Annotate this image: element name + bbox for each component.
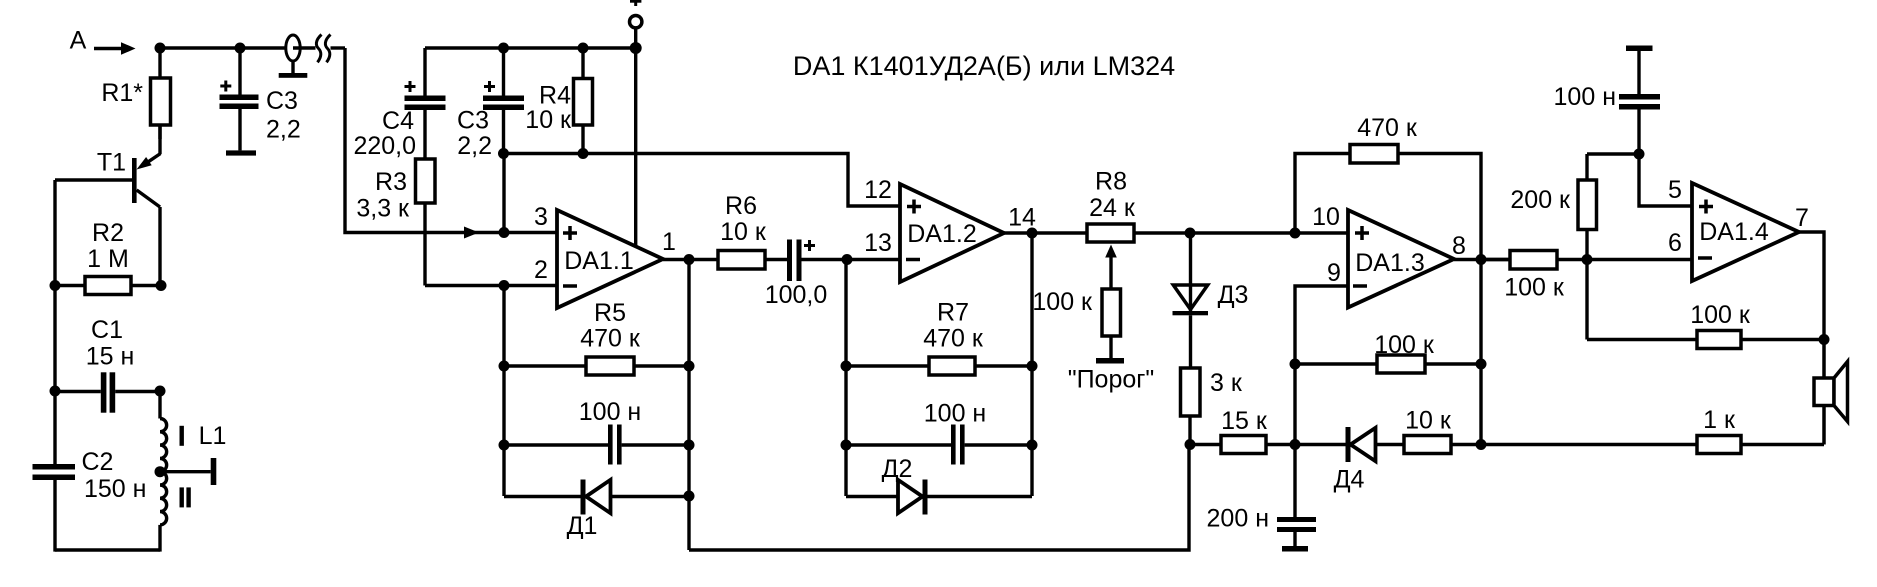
resistor 100k DA1.3 feedback	[1295, 355, 1481, 373]
resistor R2	[55, 277, 161, 295]
op-amp U3 DA1.3	[1348, 210, 1454, 308]
svg-text:100 н: 100 н	[579, 398, 641, 426]
resistor 100k threshold	[1096, 289, 1124, 364]
junction C1 right	[155, 386, 166, 397]
wire DA1.4 output	[1799, 232, 1824, 340]
wire R8 to DA1.3 row	[1134, 231, 1348, 234]
svg-text:1 к: 1 к	[1703, 406, 1736, 434]
junction D1 right	[684, 491, 695, 502]
svg-text:24 к: 24 к	[1089, 194, 1136, 222]
capacitor C1	[55, 372, 160, 412]
svg-text:R5: R5	[594, 299, 626, 327]
svg-text:C1: C1	[91, 316, 123, 344]
speaker BA1	[1814, 340, 1848, 445]
capacitor 200n	[1277, 517, 1316, 552]
potentiometer R8	[1087, 224, 1134, 289]
wire left vertical lower	[53, 480, 56, 552]
junction 15k left	[1185, 439, 1196, 450]
svg-text:8: 8	[1452, 232, 1466, 260]
svg-text:R6: R6	[725, 192, 757, 220]
junction R7 left	[841, 361, 852, 372]
svg-text:14: 14	[1008, 204, 1036, 232]
junction D3 top	[1185, 228, 1196, 239]
resistor 100k DA1.4 feedback	[1587, 331, 1824, 349]
svg-text:DA1.3: DA1.3	[1355, 249, 1424, 277]
svg-text:15 к: 15 к	[1221, 407, 1268, 435]
svg-text:100,0: 100,0	[765, 281, 828, 309]
capacitor C3 electrolytic at input	[220, 48, 259, 150]
svg-text:Д2: Д2	[882, 455, 913, 483]
junction R2 left	[50, 280, 61, 291]
svg-text:DA1.2: DA1.2	[907, 220, 976, 248]
svg-text:2,2: 2,2	[457, 132, 492, 160]
junction 10k right	[1476, 439, 1487, 450]
svg-text:DA1 К1401УД2А(Б) или LM324: DA1 К1401УД2А(Б) или LM324	[793, 51, 1175, 81]
capacitor 100n DA1.1	[504, 425, 689, 465]
junction C3 top	[235, 43, 246, 54]
junction pin14 node	[1027, 228, 1038, 239]
svg-text:12: 12	[864, 176, 892, 204]
svg-text:470 к: 470 к	[1357, 114, 1418, 142]
junction 100k3 right	[1476, 359, 1487, 370]
junction rail C3b	[498, 43, 509, 54]
svg-text:220,0: 220,0	[353, 132, 416, 160]
L1 center tap	[155, 458, 217, 485]
junction R5 left	[499, 361, 510, 372]
svg-text:100 к: 100 к	[1690, 301, 1751, 329]
svg-text:C3: C3	[457, 107, 489, 135]
svg-text:T1: T1	[97, 149, 126, 177]
svg-text:3: 3	[534, 203, 548, 231]
wire to pin 5	[1639, 154, 1692, 206]
resistor 1k	[1481, 436, 1824, 454]
junction rail R4	[578, 43, 589, 54]
label L1 winding II	[180, 487, 191, 507]
svg-text:15 н: 15 н	[86, 343, 135, 371]
supply terminal plus	[630, 0, 642, 48]
svg-text:R7: R7	[937, 299, 969, 327]
svg-text:100 н: 100 н	[924, 400, 986, 428]
op-amp U4 DA1.4	[1692, 183, 1799, 281]
svg-text:2,2: 2,2	[266, 116, 301, 144]
svg-text:100 к: 100 к	[1504, 274, 1565, 302]
svg-text:2: 2	[534, 256, 548, 284]
svg-text:9: 9	[1327, 259, 1341, 287]
svg-text:13: 13	[864, 229, 892, 257]
junction R7 right	[1027, 361, 1038, 372]
resistor 10k	[1404, 436, 1481, 454]
input arrow	[94, 42, 136, 55]
wire to pin 13	[847, 258, 900, 261]
svg-text:100 н: 100 н	[1554, 83, 1616, 111]
junction 100n bottom node	[1634, 149, 1645, 160]
svg-text:3 к: 3 к	[1210, 369, 1243, 397]
svg-text:200 к: 200 к	[1510, 186, 1571, 214]
diode D3	[1173, 233, 1209, 368]
svg-text:100 к: 100 к	[1374, 331, 1435, 359]
cable break squiggle	[316, 35, 330, 63]
svg-text:DA1.4: DA1.4	[1699, 218, 1769, 246]
junction DA1.3 pin10 node	[1290, 228, 1301, 239]
svg-text:R8: R8	[1095, 168, 1127, 196]
resistor 470k DA1.3 feedback	[1295, 145, 1481, 260]
svg-text:150 н: 150 н	[84, 475, 146, 503]
capacitor 100n DA1.2	[846, 425, 1032, 465]
svg-text:R2: R2	[92, 219, 124, 247]
wire DA1.4 feedback vertical	[1585, 260, 1588, 340]
svg-text:10 к: 10 к	[1405, 407, 1452, 435]
svg-text:Д3: Д3	[1218, 281, 1249, 309]
capacitor C4	[405, 48, 446, 159]
wire DA1.1 feedback left vertical	[502, 286, 505, 497]
svg-text:"Порог": "Порог"	[1068, 366, 1155, 394]
label L1 winding I	[180, 426, 184, 446]
resistor R3	[416, 159, 436, 286]
svg-text:10 к: 10 к	[720, 218, 767, 246]
wire DA1.1 output	[663, 258, 718, 261]
wire bottom left	[55, 548, 160, 551]
junction 100n2 left	[841, 440, 852, 451]
wire DA1.2 feedback left vertical	[844, 260, 847, 497]
svg-text:1 М: 1 М	[87, 245, 129, 273]
terminal bar top right	[1626, 46, 1653, 52]
svg-text:10 к: 10 к	[525, 106, 572, 134]
diode D1	[504, 480, 689, 515]
junction output node pin1	[684, 254, 695, 265]
svg-text:R1*: R1*	[101, 79, 143, 107]
junction rail supply	[630, 42, 642, 54]
node A input label	[70, 27, 87, 55]
svg-text:470 к: 470 к	[580, 325, 641, 353]
junction pin8 node	[1476, 254, 1487, 265]
junction bias R4	[578, 148, 589, 159]
capacitor 100n top right	[1619, 51, 1660, 154]
svg-text:L1: L1	[199, 422, 227, 450]
resistor 100k DA1.3 output	[1481, 251, 1692, 270]
inductor L1	[160, 391, 167, 552]
svg-text:3,3 к: 3,3 к	[356, 195, 410, 223]
junction pin6 node	[1582, 254, 1593, 265]
wire DA1.3 output	[1454, 258, 1510, 261]
wire C3b to pin3 node	[502, 154, 505, 233]
wire comparator bottom row	[1190, 443, 1221, 446]
transistor Q1 T1	[55, 125, 161, 286]
wire long bottom	[689, 445, 1189, 551]
wire supply to DA1.1	[634, 48, 637, 247]
wire DA1.2 output row	[1004, 231, 1087, 234]
wire left vertical upper	[53, 180, 56, 464]
svg-text:5: 5	[1668, 176, 1682, 204]
junction input node	[155, 43, 166, 54]
svg-text:1: 1	[662, 228, 676, 256]
svg-text:7: 7	[1795, 204, 1809, 232]
connector X1	[279, 35, 316, 78]
resistor R6	[718, 251, 787, 270]
capacitor C2	[33, 464, 76, 480]
resistor R5	[504, 357, 689, 375]
resistor 200k	[1578, 154, 1597, 260]
svg-text:Д1: Д1	[567, 512, 598, 540]
wire node to 200k	[1587, 152, 1639, 155]
resistor 3k	[1181, 368, 1201, 445]
junction 100n right	[684, 440, 695, 451]
junction 200n top	[1290, 439, 1301, 450]
junction R2 right	[156, 280, 167, 291]
capacitor C3b	[483, 48, 524, 154]
resistor 15k	[1221, 436, 1295, 454]
junction R5 right	[684, 361, 695, 372]
junction pin13 node	[842, 254, 853, 265]
ground bar under C3	[226, 150, 256, 155]
svg-text:A: A	[70, 27, 87, 55]
wire DA1.1 feedback right vertical	[687, 260, 690, 551]
wire DA1.2 feedback right vertical	[1030, 233, 1033, 496]
wire pin 2 row	[425, 284, 557, 287]
svg-text:6: 6	[1668, 229, 1682, 257]
junction 100k3 left	[1290, 359, 1301, 370]
svg-text:200 н: 200 н	[1207, 505, 1269, 533]
junction pin2 node	[499, 280, 510, 291]
wire from connector to pin 3 of DA1.1	[331, 48, 558, 239]
svg-text:100 к: 100 к	[1032, 288, 1093, 316]
op-amp U2 DA1.2	[900, 184, 1004, 282]
wire supply rail	[425, 46, 635, 49]
svg-text:Д4: Д4	[1334, 466, 1365, 494]
wire pin 9	[1295, 286, 1348, 517]
junction speaker top node	[1819, 334, 1830, 345]
junction 100n left	[499, 440, 510, 451]
capacitor 100,0 electrolytic	[787, 240, 847, 282]
svg-text:DA1.1: DA1.1	[564, 247, 633, 275]
svg-text:R3: R3	[375, 168, 407, 196]
resistor R7	[846, 357, 1032, 375]
junction 100n2 right	[1027, 440, 1038, 451]
svg-text:C2: C2	[82, 448, 114, 476]
svg-text:C4: C4	[382, 107, 414, 135]
wire DA1.3 feedback right vertical	[1479, 260, 1482, 445]
junction bias C3b	[498, 148, 509, 159]
svg-text:C3: C3	[266, 87, 298, 115]
svg-text:470 к: 470 к	[923, 325, 984, 353]
junction pin3 node	[499, 227, 510, 238]
op-amp U1 DA1.1	[557, 210, 663, 308]
junction C1 left	[50, 386, 61, 397]
resistor R1	[151, 48, 171, 139]
wire top input to connector	[160, 46, 287, 49]
resistor R4	[574, 48, 593, 154]
diode D4	[1295, 427, 1404, 462]
wire bias row to pin 12	[504, 154, 901, 207]
diode D2	[846, 480, 1032, 515]
svg-text:10: 10	[1312, 203, 1340, 231]
